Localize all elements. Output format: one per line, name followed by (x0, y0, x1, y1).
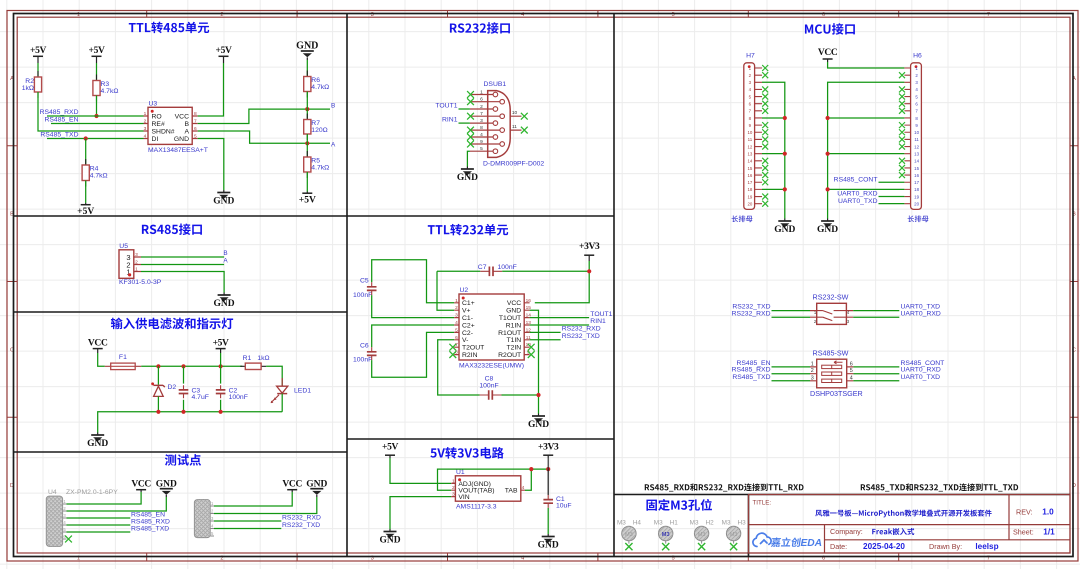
connector U5 KF301-5.0-3P (119, 250, 134, 278)
svg-text:H2: H2 (706, 520, 715, 527)
capacitor C1 (543, 500, 553, 504)
resistor R7 (306, 114, 308, 141)
label 长排母 (H7) (732, 215, 753, 222)
wire (38, 92, 144, 131)
svg-text:RS485_TXD: RS485_TXD (732, 374, 770, 381)
section title RS485接口 (142, 223, 202, 235)
svg-text:100nF: 100nF (353, 357, 372, 364)
svg-text:14: 14 (914, 159, 919, 164)
svg-text:R4: R4 (90, 166, 99, 173)
svg-text:U4: U4 (48, 489, 57, 496)
wire (879, 181, 905, 183)
junction (783, 187, 787, 191)
title block frame (749, 495, 1071, 554)
svg-text:V-: V- (462, 337, 468, 344)
svg-text:U2: U2 (460, 287, 469, 294)
svg-text:13: 13 (914, 151, 919, 156)
svg-text:RIN1: RIN1 (590, 318, 606, 325)
svg-text:GND: GND (213, 197, 234, 207)
svg-text:15: 15 (747, 166, 752, 171)
svg-text:Drawn By:: Drawn By: (929, 542, 962, 551)
svg-text:19: 19 (747, 194, 752, 199)
svg-text:1kΩ: 1kΩ (257, 355, 269, 362)
ground (filter) (97, 433, 99, 436)
svg-text:H4: H4 (633, 520, 642, 527)
svg-text:3: 3 (135, 252, 138, 258)
wire top rail (141, 365, 242, 367)
svg-text:VCC: VCC (507, 300, 521, 307)
wire (459, 108, 470, 110)
wire (502, 270, 589, 272)
wire (853, 316, 899, 318)
svg-text:100nF: 100nF (498, 264, 517, 271)
svg-text:GND: GND (296, 41, 318, 52)
wire (306, 92, 308, 120)
svg-text:5: 5 (194, 134, 197, 140)
svg-text:6: 6 (850, 361, 853, 367)
wire V- to C8 (438, 340, 480, 395)
svg-text:GND: GND (306, 479, 327, 489)
svg-text:R1OUT: R1OUT (498, 330, 521, 337)
wire (853, 366, 899, 368)
svg-text:+5V: +5V (216, 46, 232, 56)
wire (879, 196, 905, 198)
ground (DSUB pin5) (466, 167, 468, 170)
DSUB pins 10 11 (510, 116, 521, 130)
svg-text:GND: GND (174, 136, 189, 143)
svg-text:120Ω: 120Ω (311, 127, 327, 134)
svg-text:T2IN: T2IN (506, 345, 521, 352)
svg-text:+5V: +5V (89, 46, 105, 56)
junction (783, 152, 787, 156)
wire (828, 62, 905, 68)
svg-text:GND: GND (528, 420, 549, 430)
svg-text:1: 1 (452, 478, 455, 484)
svg-text:12: 12 (914, 144, 919, 149)
wire H7 ground bus (762, 82, 785, 218)
resistor R1 (240, 365, 266, 367)
svg-text:5: 5 (850, 368, 853, 374)
svg-text:17: 17 (914, 180, 919, 185)
svg-text:RS232_RXD: RS232_RXD (732, 311, 771, 318)
no-connect X marks (H6) (899, 72, 905, 78)
svg-text:C7: C7 (478, 264, 487, 271)
ground (H7 bus) (784, 219, 786, 222)
junction (219, 364, 223, 368)
svg-text:VCC: VCC (175, 113, 189, 120)
wire (437, 270, 480, 272)
op-amp U3 MAX13487 transceiver (148, 107, 192, 144)
wire (772, 366, 811, 368)
wire GND to VIN (390, 497, 451, 529)
svg-text:UART0_TXD: UART0_TXD (838, 198, 878, 205)
svg-text:R7: R7 (311, 120, 320, 127)
wire (372, 325, 455, 347)
svg-text:RS232-SW: RS232-SW (813, 293, 849, 302)
svg-text:U5: U5 (119, 243, 128, 250)
svg-text:16: 16 (526, 298, 532, 304)
wire (853, 373, 899, 375)
wire (67, 517, 131, 519)
svg-text:12: 12 (747, 144, 752, 149)
svg-text:10uF: 10uF (556, 503, 572, 510)
svg-text:M3: M3 (698, 532, 706, 538)
junction (826, 152, 830, 156)
svg-text:A: A (184, 128, 189, 135)
wire B net (198, 109, 330, 123)
svg-text:B: B (331, 103, 335, 110)
connector test header right (194, 500, 210, 538)
svg-text:RS485-SW: RS485-SW (813, 348, 849, 357)
section title 输入供电滤波和指示灯 (111, 318, 233, 330)
svg-text:16: 16 (914, 173, 919, 178)
svg-text:VIN: VIN (458, 494, 469, 501)
svg-text:TOUT1: TOUT1 (435, 102, 457, 109)
wire A net (198, 131, 330, 143)
junction (181, 410, 185, 414)
svg-text:F1: F1 (119, 354, 127, 361)
svg-text:RS485_CONT: RS485_CONT (834, 176, 878, 183)
resistor R2 (37, 71, 39, 98)
svg-text:RS485_RXD: RS485_RXD (131, 519, 170, 526)
junction (305, 107, 309, 111)
svg-text:4: 4 (480, 132, 483, 138)
svg-text:4.7kΩ: 4.7kΩ (101, 88, 119, 95)
svg-text:V+: V+ (462, 308, 471, 315)
svg-text:SHDN#: SHDN# (152, 128, 175, 135)
LED LED1 (281, 378, 283, 386)
svg-text:RS485_EN: RS485_EN (44, 117, 78, 124)
svg-text:2: 2 (455, 305, 458, 311)
power +5V (R2) (33, 55, 43, 57)
svg-text:20: 20 (747, 201, 752, 206)
svg-text:1.0: 1.0 (1042, 508, 1054, 517)
svg-text:Sheet:: Sheet: (1013, 527, 1034, 536)
svg-text:5: 5 (455, 327, 458, 333)
svg-text:C1-: C1- (462, 315, 473, 322)
svg-text:4.7kΩ: 4.7kΩ (311, 84, 329, 91)
label 长排母 (H6) (908, 215, 929, 222)
wire (459, 122, 470, 124)
wire (772, 380, 811, 382)
svg-text:RS485_TXD: RS485_TXD (131, 526, 169, 533)
no-connect X (pin 10) (521, 113, 528, 120)
svg-text:9: 9 (480, 139, 483, 145)
svg-text:VCC: VCC (818, 48, 838, 58)
svg-text:8: 8 (480, 125, 483, 131)
wire R1IN (530, 324, 590, 326)
junction (826, 116, 830, 120)
note RS485_TXD和RS232_TXD连接到TTL_TXD (861, 483, 1018, 491)
svg-text:RS232_RXD: RS232_RXD (562, 326, 601, 333)
svg-text:2: 2 (811, 368, 814, 374)
ground (C1) (547, 534, 549, 537)
power +5V (rail) (216, 348, 226, 350)
svg-text:U1: U1 (456, 469, 465, 476)
svg-text:4: 4 (522, 485, 525, 491)
resistor R4 (85, 159, 87, 187)
wire TAB (525, 469, 531, 490)
section title TTL转232单元 (428, 224, 508, 236)
wire (96, 63, 98, 81)
no-connect X marks (H7) (762, 65, 768, 71)
svg-text:RS232_RXD: RS232_RXD (282, 515, 321, 522)
svg-text:C2-: C2- (462, 330, 473, 337)
wire (547, 508, 549, 534)
power +5V (below R5) (302, 192, 312, 194)
wire (502, 394, 539, 396)
svg-text:4.7kΩ: 4.7kΩ (90, 173, 108, 180)
capacitor C2 (220, 366, 222, 383)
svg-text:1: 1 (811, 361, 814, 367)
svg-text:R1: R1 (243, 355, 252, 362)
svg-text:A: A (223, 258, 228, 265)
svg-text:2: 2 (144, 119, 147, 125)
wire (220, 353, 222, 366)
svg-text:+3V3: +3V3 (538, 443, 559, 453)
wire V+ riser (437, 271, 454, 310)
svg-text:M3: M3 (662, 532, 670, 538)
svg-text:20: 20 (914, 201, 919, 206)
svg-text:M3: M3 (654, 520, 663, 527)
no-connect X (U2 pins 10 9) (528, 344, 535, 351)
section title TTL转485单元 (129, 22, 209, 34)
svg-text:+3V3: +3V3 (579, 242, 600, 252)
svg-text:R1IN: R1IN (506, 322, 522, 329)
svg-text:C6: C6 (360, 343, 369, 350)
svg-text:+5V: +5V (30, 46, 46, 56)
wire (198, 139, 224, 191)
svg-text:GND: GND (817, 225, 838, 235)
svg-text:4.7kΩ: 4.7kΩ (311, 165, 329, 172)
wire (853, 310, 899, 312)
wire VOUT rail (438, 469, 549, 490)
fuse F1 (105, 365, 141, 367)
svg-text:RS485_RXD: RS485_RXD (732, 367, 771, 374)
svg-text:RS485_RXD: RS485_RXD (40, 109, 79, 116)
wire (772, 310, 811, 312)
section title 5V转3V3电路 (430, 447, 503, 459)
section title 测试点 (165, 454, 201, 466)
svg-text:UART0_RXD: UART0_RXD (901, 367, 941, 374)
svg-text:6: 6 (194, 126, 197, 132)
power +5V (regulator) (385, 454, 395, 456)
svg-text:15: 15 (914, 166, 919, 171)
svg-text:DSHP03TSGER: DSHP03TSGER (810, 389, 863, 398)
power +5V (R3) (92, 55, 102, 57)
svg-text:RS485_EN: RS485_EN (131, 512, 165, 519)
wire (467, 151, 470, 166)
regulator U1 AMS1117-3.3 (455, 476, 520, 501)
svg-text:R2OUT: R2OUT (498, 352, 521, 359)
wire (306, 172, 308, 192)
wire (67, 492, 142, 504)
svg-text:1: 1 (455, 298, 458, 304)
no-connect X (U2 pins 7 8) (449, 344, 456, 351)
ground (U3 GND) (223, 190, 225, 193)
svg-text:GND: GND (457, 173, 478, 183)
svg-text:MAX13487EESA+T: MAX13487EESA+T (148, 147, 208, 154)
svg-text:B: B (223, 250, 227, 257)
power VCC (test left) (136, 489, 146, 491)
svg-text:1: 1 (144, 111, 147, 117)
wire (535, 261, 589, 303)
wire (390, 458, 451, 483)
svg-text:18: 18 (747, 187, 752, 192)
svg-text:2: 2 (452, 485, 455, 491)
power +3V3 (TTL232) (584, 254, 594, 256)
wire (198, 63, 224, 116)
svg-text:C1+: C1+ (462, 300, 475, 307)
svg-text:VCC: VCC (282, 479, 302, 489)
svg-text:Date:: Date: (830, 542, 847, 551)
ground (H6 bus) (827, 219, 829, 222)
svg-text:11: 11 (512, 124, 517, 130)
junction (546, 467, 550, 471)
wire bottom rail (98, 412, 283, 433)
svg-text:100nF: 100nF (353, 292, 372, 299)
note RS485_RXD和RS232_RXD连接到TTL_RXD (645, 483, 804, 491)
wire (214, 528, 281, 530)
wire H6 ground bus (828, 82, 905, 218)
svg-text:VCC: VCC (88, 338, 108, 348)
logo 嘉立创EDA (753, 533, 771, 546)
wire (47, 138, 144, 140)
wire (306, 60, 308, 77)
wire (214, 497, 317, 514)
ground (regulator input) (389, 529, 391, 532)
svg-text:GND: GND (156, 479, 177, 489)
resistor R5 (306, 151, 308, 178)
wire (67, 524, 131, 526)
junction (783, 116, 787, 120)
svg-text:RS232_TXD: RS232_TXD (562, 333, 600, 340)
svg-text:RO: RO (152, 113, 162, 120)
svg-text:H6: H6 (913, 53, 922, 60)
svg-text:GND: GND (379, 536, 400, 546)
svg-text:RS232_TXD: RS232_TXD (282, 522, 320, 529)
svg-text:UART0_RXD: UART0_RXD (837, 191, 877, 198)
wire A net (141, 264, 224, 266)
svg-text:GND: GND (214, 299, 235, 309)
svg-text:GND: GND (774, 225, 795, 235)
svg-text:EDA: EDA (801, 538, 823, 549)
svg-text:4: 4 (850, 375, 853, 381)
svg-text:TITLE:: TITLE: (753, 500, 772, 507)
svg-text:6: 6 (480, 97, 483, 103)
wire GND net (530, 310, 539, 413)
svg-text:16: 16 (747, 173, 752, 178)
power VCC (test right) (287, 489, 297, 491)
svg-text:VCC: VCC (131, 479, 151, 489)
svg-text:+5V: +5V (299, 196, 316, 206)
svg-text:C2+: C2+ (462, 322, 475, 329)
svg-text:5: 5 (480, 146, 483, 152)
svg-text:A: A (331, 142, 336, 149)
svg-text:UART0_TXD: UART0_TXD (901, 374, 941, 381)
svg-text:LED1: LED1 (294, 388, 311, 395)
wire (85, 139, 87, 166)
svg-text:7: 7 (194, 119, 197, 125)
wire T1IN (530, 339, 561, 341)
power +5V (U3 VCC) (219, 55, 229, 57)
power VCC (filter input) (93, 348, 103, 350)
svg-text:DI: DI (152, 136, 159, 143)
wire (85, 181, 87, 204)
svg-text:M3: M3 (690, 520, 699, 527)
junction (94, 114, 98, 118)
svg-text:4.7uF: 4.7uF (192, 394, 209, 401)
svg-text:GND: GND (538, 541, 559, 551)
no-connect X (U4 pin 6) (65, 536, 72, 543)
svg-text:13: 13 (747, 151, 752, 156)
svg-text:1: 1 (480, 89, 483, 95)
section title RS232接口 (450, 22, 510, 34)
svg-text:+5V: +5V (77, 207, 94, 217)
svg-text:C5: C5 (360, 278, 369, 285)
svg-text:REV:: REV: (1016, 508, 1033, 517)
wire (266, 366, 282, 386)
svg-text:10: 10 (747, 130, 752, 135)
svg-text:GND: GND (506, 308, 521, 315)
junction (305, 141, 309, 145)
svg-text:R5: R5 (311, 158, 320, 165)
svg-text:leelsp: leelsp (975, 542, 998, 551)
junction (84, 136, 88, 140)
wire (853, 380, 899, 382)
svg-text:B: B (184, 121, 189, 128)
svg-text:4: 4 (144, 134, 147, 140)
wire (67, 531, 131, 533)
svg-text:3: 3 (455, 313, 458, 319)
svg-text:2: 2 (135, 259, 138, 265)
svg-text:7: 7 (480, 111, 483, 117)
wire T1OUT (530, 317, 590, 319)
wire R1OUT (530, 331, 561, 333)
svg-text:Company:: Company: (830, 527, 863, 536)
svg-text:+5V: +5V (213, 338, 229, 348)
svg-text:1/1: 1/1 (1043, 527, 1055, 536)
junction (536, 393, 540, 397)
svg-text:10: 10 (914, 130, 919, 135)
svg-text:H1: H1 (670, 520, 679, 527)
svg-text:M3: M3 (730, 532, 738, 538)
wire (879, 203, 905, 205)
svg-text:ZX-PM2.0-1-6PY: ZX-PM2.0-1-6PY (66, 489, 118, 496)
wire B net (141, 256, 224, 258)
svg-text:+5V: +5V (382, 443, 398, 453)
resistor R6 (306, 71, 308, 98)
svg-text:2: 2 (480, 104, 483, 110)
svg-text:T1OUT: T1OUT (499, 315, 521, 322)
svg-text:R2: R2 (25, 78, 34, 85)
wire (214, 492, 292, 506)
svg-text:1: 1 (135, 266, 138, 272)
wire (98, 353, 105, 366)
svg-text:H7: H7 (746, 53, 755, 60)
wire (67, 497, 167, 511)
junction (826, 187, 830, 191)
svg-text:T2OUT: T2OUT (462, 345, 484, 352)
svg-text:RIN1: RIN1 (442, 116, 458, 123)
no-connect X marks (DSUB left pins) (467, 91, 474, 98)
svg-text:3: 3 (452, 492, 455, 498)
svg-text:TAB: TAB (505, 488, 518, 495)
svg-text:10: 10 (512, 110, 518, 116)
svg-text:M3: M3 (722, 520, 731, 527)
svg-text:2025-04-20: 2025-04-20 (863, 542, 905, 551)
svg-text:11: 11 (748, 137, 753, 142)
